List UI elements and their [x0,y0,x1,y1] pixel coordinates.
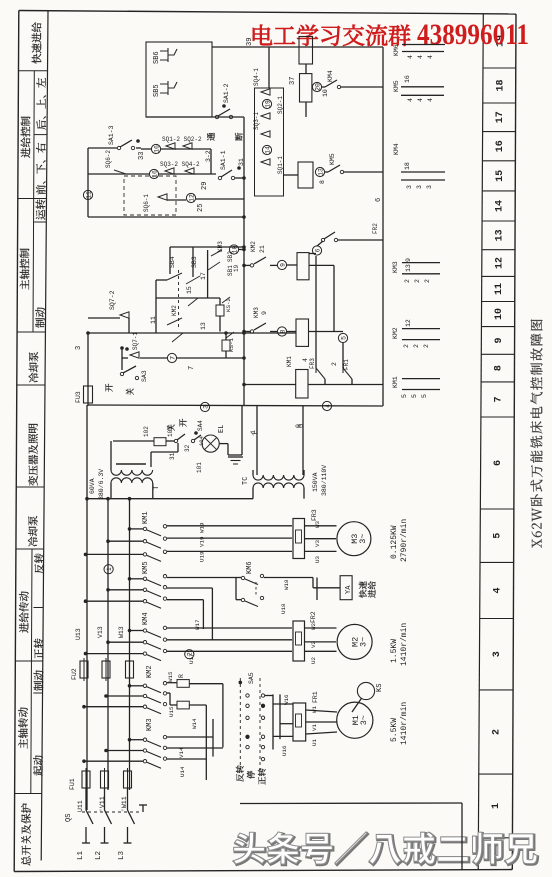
latching wire y298 [156,297,220,299]
speed sensor KS [357,682,374,699]
svg-text:13: 13 [405,264,412,272]
limit contact SQ3-1 [261,131,270,137]
svg-text:U16: U16 [281,745,288,756]
svg-text:5: 5 [421,394,428,398]
svg-text:KM1: KM1 [392,376,399,388]
svg-text:20: 20 [314,83,321,91]
svg-text:4: 4 [417,55,424,59]
svg-text:13: 13 [495,229,506,241]
svg-text:U1: U1 [311,739,318,746]
right control rail [382,47,384,406]
svg-text:QS: QS [65,814,73,822]
svg-text:SB3: SB3 [191,256,198,268]
switch SA1-1 [218,176,221,179]
svg-text:KM2: KM2 [146,665,154,678]
svg-text:12: 12 [188,194,195,202]
gray watermark 头条号/八戒二师兄 [234,833,538,865]
svg-text:10: 10 [494,308,505,320]
transformer TC [253,475,304,480]
svg-text:0.125KW: 0.125KW [390,525,399,559]
junction bus under transformers [86,498,254,500]
svg-text:KM3: KM3 [392,261,399,273]
svg-text:FR1: FR1 [312,691,319,703]
svg-text:15: 15 [495,170,506,182]
svg-text:U14: U14 [179,766,186,777]
title block box bottom right [240,802,462,805]
vertical title X62W milling machine [530,319,542,547]
coil KM3 [296,319,309,346]
svg-text:4: 4 [492,587,503,593]
ground branch [219,443,228,445]
svg-text:18: 18 [495,79,506,91]
right column cells [483,67,516,69]
svg-text:1: 1 [250,430,257,434]
wire 31 jog [150,452,152,467]
svg-text:0: 0 [295,424,302,428]
svg-text:W2: W2 [310,623,317,630]
pushbutton SB5 [160,81,177,95]
svg-text:25: 25 [197,204,205,212]
svg-text:V14: V14 [178,747,185,758]
sidebar label 冷却泵 [29,352,39,383]
svg-text:14: 14 [264,146,271,154]
wires SA5 to FR1 [265,695,273,697]
svg-text:1: 1 [106,567,113,571]
thermal relay FR2 heater [293,621,305,661]
pushbuttons SB1 SB2 branch [207,250,209,298]
sidebar label 起动 [33,755,43,775]
svg-text:SQ3-1: SQ3-1 [253,112,260,130]
svg-text:KM1: KM1 [142,511,150,524]
svg-text:KS-2: KS-2 [225,298,232,312]
svg-text:13: 13 [200,322,207,330]
svg-text:4: 4 [407,98,414,102]
limit contacts SQ2-2 SQ1-2 row [151,144,160,153]
svg-text:16: 16 [151,170,158,178]
svg-text:SQ6-2: SQ6-2 [105,150,112,168]
svg-text:U18: U18 [280,603,287,614]
svg-text:17: 17 [495,111,506,123]
junction link [210,149,212,174]
svg-text:R: R [178,674,185,678]
svg-text:W14: W14 [191,718,198,729]
node 4 on bus [322,401,331,410]
svg-text:U13: U13 [75,628,82,640]
svg-text:3: 3 [75,346,83,350]
svg-text:2: 2 [403,344,410,348]
sidebar label 反转 [34,553,44,573]
svg-text:2: 2 [404,279,411,283]
speed relay contact KS-1 [226,332,234,338]
resistor R lower [167,692,170,694]
svg-text:16: 16 [153,145,160,153]
svg-text:2: 2 [331,362,338,366]
label fast feed two columns [359,581,367,597]
sidebar label 制动 lower [34,670,44,690]
svg-text:6: 6 [375,198,383,202]
char duan [235,133,243,141]
svg-text:V2: V2 [310,641,317,648]
sidebar label 制动 [35,307,45,327]
svg-text:KM5: KM5 [142,561,150,574]
node 1 on V13 [104,565,113,574]
svg-text:KM2: KM2 [392,327,399,339]
limit switch SQ7-2 [120,312,129,318]
sidebar label 快速进给 [32,22,42,63]
svg-text:U2: U2 [310,657,317,664]
svg-text:12: 12 [494,257,505,269]
sidebar label 冷却泵 lower [28,516,38,547]
svg-text:L3: L3 [118,850,126,860]
rotor circuit verticals [222,684,224,748]
limit contact SQ4-1 [261,89,270,95]
svg-text:5: 5 [401,394,408,398]
svg-text:SQ2-1: SQ2-1 [277,96,284,114]
node 11 [83,190,92,199]
coil KM5 aux circuit [298,162,313,188]
svg-text:3: 3 [426,185,433,189]
svg-text:SQ1-1: SQ1-1 [277,156,284,174]
svg-text:SQ4-1: SQ4-1 [253,68,260,86]
svg-text:31: 31 [169,452,176,460]
switch SA1-3 [88,147,117,149]
svg-text:21: 21 [259,245,266,253]
svg-text:16: 16 [495,140,506,152]
svg-text:2: 2 [424,279,431,283]
vertical feeds to TC [256,406,258,475]
svg-text:7: 7 [188,366,196,370]
contact group KM2 right [402,328,440,330]
svg-text:3: 3 [406,185,413,189]
bottom wire of selector cluster [88,216,244,218]
lamp branch wire [113,440,154,442]
svg-text:KM6: KM6 [393,44,400,56]
sidebar cell dividers [18,70,47,72]
vertical link right of coils [315,256,317,368]
svg-text:11: 11 [85,191,92,199]
limit contact SQ1-1 [261,159,270,165]
resistor R upper [167,682,177,684]
dashed accessory box [124,176,176,215]
svg-text:W16: W16 [283,694,290,705]
coil KM1 [296,370,308,399]
control bottom bus [88,405,383,406]
svg-text:1410r/min: 1410r/min [400,623,409,666]
thermal relay FR1 heater [293,703,306,741]
svg-text:W1: W1 [311,706,318,713]
svg-text:101: 101 [196,462,203,473]
svg-text:KM1: KM1 [286,356,293,367]
svg-text:FR1: FR1 [343,359,350,370]
node 2 [185,650,194,659]
node 14 [262,145,271,154]
sidebar label 主轴控制 [20,249,30,290]
svg-text:9: 9 [261,311,268,315]
svg-text:37: 37 [289,77,297,85]
svg-text:3~: 3~ [358,534,368,544]
svg-text:V3: V3 [314,540,321,547]
svg-text:W18: W18 [283,579,290,590]
svg-text:FU3: FU3 [75,391,82,403]
svg-text:FU1: FU1 [69,778,76,790]
svg-text:9: 9 [279,263,286,267]
svg-text:T: T [153,485,161,490]
sidebar label 运转 [36,199,46,219]
svg-text:KM2: KM2 [250,241,257,252]
contact group KM1 right [402,378,440,380]
svg-text:1410r/min: 1410r/min [400,702,409,745]
svg-text:19: 19 [233,264,240,272]
left branch vertical [155,280,157,333]
svg-text:KM4: KM4 [327,70,334,82]
svg-text:SA5: SA5 [248,672,255,684]
svg-text:SA3: SA3 [141,370,148,382]
svg-text:438996011: 438996011 [417,18,529,51]
svg-text:KM6: KM6 [246,561,254,574]
node 6 [309,253,316,255]
svg-text:W19: W19 [199,522,206,533]
svg-text:12: 12 [405,319,412,327]
wire y247 cluster top [170,246,244,248]
main control rail vertical [243,117,245,406]
svg-text:33: 33 [138,152,146,160]
svg-text:10: 10 [322,89,329,97]
svg-text:SA1-2: SA1-2 [223,83,230,103]
svg-text:2: 2 [414,279,421,283]
svg-text:29: 29 [201,182,209,190]
svg-text:V19: V19 [199,536,206,547]
transformer T [116,463,146,465]
svg-text:SQ6-1: SQ6-1 [143,194,150,212]
svg-text:6: 6 [314,248,321,252]
svg-text:3: 3 [416,185,423,189]
svg-text:2: 2 [492,729,503,735]
svg-text:W13: W13 [118,626,125,638]
fuse FU3 [84,386,93,403]
svg-text:KM5: KM5 [329,153,336,165]
svg-text:SQ7-2: SQ7-2 [109,290,116,310]
sidebar label 主轴转动 [18,707,28,748]
contact KM5 aux [315,167,324,176]
sidebar label 正转 [34,638,44,658]
fuse group FU1 [82,771,90,788]
svg-text:KM4: KM4 [393,143,400,155]
svg-text:KM3: KM3 [217,241,224,252]
svg-text:39: 39 [246,38,254,46]
svg-text:KM2: KM2 [171,305,178,316]
svg-text:W17: W17 [194,619,201,630]
KM6 output jog to YA [264,577,313,579]
coil lower 37 [300,74,312,102]
sidebar inner divider vertical upper [33,71,34,332]
svg-text:V1: V1 [311,724,318,731]
lamp EL [202,435,219,452]
svg-text:9: 9 [494,337,505,343]
svg-text:13: 13 [317,168,324,176]
right number column left edge [478,14,483,870]
svg-text:L2: L2 [95,851,103,860]
svg-text:7: 7 [494,396,505,402]
svg-text:U19: U19 [199,551,206,562]
limit switch chain box [255,88,284,196]
node 12 [186,193,195,202]
switch SA1-2 [215,115,218,118]
svg-text:W3: W3 [314,521,321,528]
contact group KM6 right [402,44,445,46]
svg-text:U15: U15 [168,706,175,717]
svg-text:KS: KS [376,684,384,692]
coil KM2 [297,253,309,280]
svg-text:L1: L1 [77,850,85,860]
svg-text:4: 4 [417,98,424,102]
terminals L1 L2 L3 [82,842,90,844]
svg-text:W15: W15 [167,671,174,682]
svg-text:FR3: FR3 [309,358,316,369]
svg-text:U3: U3 [314,556,321,563]
svg-text:3: 3 [202,405,209,409]
sidebar label 变压器及照明 [28,424,38,486]
svg-text:4: 4 [427,55,434,59]
motor M3 [337,522,371,556]
svg-text:17: 17 [200,272,207,280]
svg-text:102: 102 [143,426,150,437]
svg-text:380/110V: 380/110V [321,465,328,496]
svg-text:3~: 3~ [359,715,369,725]
thermal relay FR3 heater [293,519,305,559]
svg-text:16: 16 [404,75,411,83]
svg-text:KM3: KM3 [253,307,260,318]
svg-text:150VA: 150VA [312,472,319,492]
switch SA4 [191,439,194,442]
svg-text:9: 9 [405,258,412,262]
svg-text:5.5KW: 5.5KW [390,718,399,742]
solenoid YA [340,576,352,600]
svg-text:SQ1-2 SQ2-2: SQ1-2 SQ2-2 [162,136,202,143]
svg-text:FR3: FR3 [311,509,318,521]
phase vertical W [129,499,131,790]
wire top bus [212,46,383,48]
svg-text:FU2: FU2 [71,668,78,680]
svg-text:380/6.3V: 380/6.3V [98,469,105,500]
svg-text:FR2: FR2 [372,223,379,234]
coil KM6 upper [299,37,313,65]
svg-text:32: 32 [184,444,191,452]
node 5 [309,331,344,333]
svg-text:1: 1 [491,803,502,809]
svg-text:TC: TC [242,477,250,485]
svg-text:4: 4 [324,404,331,408]
contact group KM5 right [401,86,444,88]
thermal contact FR2 top [321,238,324,241]
svg-text:SA1-1: SA1-1 [220,150,227,170]
sidebar label 进给传动 [19,591,29,632]
svg-text:14: 14 [495,200,506,212]
svg-text:8: 8 [319,180,326,184]
pushbutton SB3 [192,247,194,277]
contact group KM4 right [401,171,445,173]
svg-text:V13: V13 [97,626,104,638]
svg-text:2: 2 [187,652,194,656]
node 7 [167,353,176,362]
svg-text:KM3: KM3 [146,718,154,731]
thermal contact FR3 [316,368,325,379]
svg-text:SQ3-2 SQ4-2: SQ3-2 SQ4-2 [160,161,200,168]
svg-text:KS-1: KS-1 [228,338,235,352]
svg-text:KM5: KM5 [393,80,400,92]
left control drop wire [87,333,89,405]
contact KM4 aux [312,82,321,91]
svg-text:2: 2 [413,344,420,348]
svg-text:5: 5 [411,394,418,398]
svg-text:EL: EL [218,425,226,433]
svg-text:11: 11 [150,316,157,324]
pushbutton SB4 [156,279,167,281]
top-left button box frame [146,42,212,117]
sidebar label 总开关及保护 [21,803,31,865]
svg-text:4: 4 [427,98,434,102]
svg-text:6: 6 [493,460,504,466]
limit switch SQ6-1 [158,194,167,200]
labels fan ting zheng [236,765,244,781]
svg-text:SQ7-1: SQ7-1 [132,332,139,350]
char tong [207,133,215,141]
phase vertical V [107,499,109,790]
svg-text:15: 15 [186,286,193,294]
wire box-bottom node line [146,116,244,118]
svg-text:18: 18 [404,162,411,170]
svg-text:5: 5 [340,336,347,340]
node 3 on bus [200,402,209,411]
sidebar label 前、下、右 [36,143,46,195]
svg-text:2: 2 [423,344,430,348]
switch contact 103 [174,439,177,442]
svg-text:19: 19 [264,100,271,108]
motor M2 [337,624,372,659]
svg-text:4: 4 [407,55,414,59]
svg-text:2790r/min: 2790r/min [400,519,409,562]
contact group KM3 right [402,262,440,264]
svg-text:SB4: SB4 [169,256,176,268]
sidebar right edge [41,11,48,861]
ground symbol [228,456,243,458]
svg-text:YA: YA [345,585,353,594]
svg-text:7: 7 [169,356,176,360]
speed relay contact KS-2 [222,297,230,303]
svg-text:10: 10 [231,246,238,254]
red header text [253,25,410,46]
svg-text:SB6: SB6 [153,51,161,64]
svg-text:5: 5 [493,533,504,539]
svg-text:8: 8 [494,365,505,371]
dashed mech link SB3-SB4 [178,270,180,330]
node 19 [262,99,271,108]
pushbutton SB6 [160,48,177,62]
limit switch SQ7-1 [130,352,139,358]
svg-text:60VA: 60VA [89,478,96,494]
svg-text:SA1-3: SA1-3 [108,125,115,145]
svg-text:SB5: SB5 [153,84,161,97]
svg-text:11: 11 [494,283,505,295]
svg-text:8: 8 [279,329,286,333]
sidebar label 进给控制 [21,117,31,158]
svg-text:FR2: FR2 [310,611,317,623]
link KM2 coil to vertical [309,264,334,266]
phase vertical U [86,405,88,810]
svg-text:3~: 3~ [359,637,369,647]
sidebar inner divider vertical lower [31,549,32,794]
main horizontal wire 3 [88,332,296,334]
svg-text:KM4: KM4 [142,612,150,625]
